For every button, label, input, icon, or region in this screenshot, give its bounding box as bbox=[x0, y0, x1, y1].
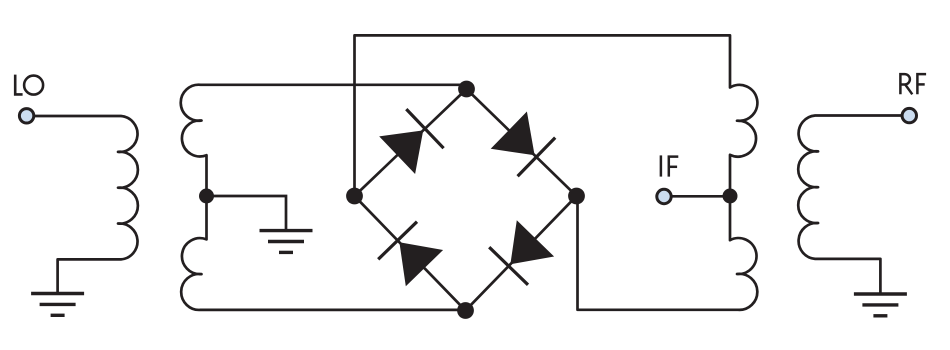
node: ring bottom junction dot bbox=[457, 302, 474, 319]
diode D1 (left node to top node) bbox=[379, 130, 423, 174]
ground (LO side) bbox=[31, 294, 84, 316]
diode D4 (bottom node to left node) bbox=[399, 242, 443, 286]
node: IF center tap junction dot bbox=[723, 189, 738, 204]
diode ring wires (diamond) bbox=[355, 89, 577, 311]
label LO bbox=[15, 75, 43, 95]
node: center tap junction dot bbox=[199, 189, 214, 204]
transformer T1 primary winding (LO side) with wire from LO terminal bbox=[33, 116, 138, 292]
terminal LO bbox=[19, 109, 33, 123]
transformer T2 secondary bottom half and wire to right ring node bbox=[578, 196, 758, 310]
label IF bbox=[661, 155, 678, 176]
ground (center tap) bbox=[260, 231, 313, 253]
node: ring left junction dot bbox=[346, 188, 363, 205]
node: ring right junction dot bbox=[568, 188, 585, 205]
label RF bbox=[900, 74, 926, 94]
terminal RF bbox=[902, 108, 916, 122]
transformer T1 secondary winding (center-tapped) with top wire to top node and bottom wire to bottom node bbox=[181, 85, 466, 310]
transformer T2 primary winding (RF side) with wire from RF terminal bbox=[798, 116, 902, 293]
diode D3 (right node to bottom node) bbox=[510, 220, 554, 264]
terminal IF bbox=[657, 189, 671, 203]
diode D2 (top node to right node) bbox=[491, 112, 535, 156]
wire center tap to ground bbox=[207, 196, 287, 230]
wire: left node up and top bus to right transformer, into secondary top half bbox=[355, 35, 758, 196]
node: ring top junction dot bbox=[458, 81, 475, 98]
wire IF terminal to center tap bbox=[671, 195, 730, 198]
ground (RF side) bbox=[854, 294, 907, 316]
